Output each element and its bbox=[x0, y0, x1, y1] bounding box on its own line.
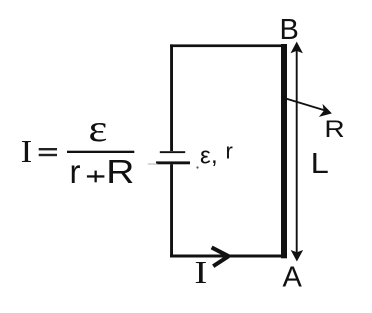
wire: left side lower segment bbox=[170, 164, 173, 257]
wire: top rail bbox=[170, 44, 284, 47]
svg-text:r: r bbox=[70, 153, 81, 190]
resistance arrow R shaft bbox=[282, 97, 327, 111]
svg-text:I: I bbox=[21, 133, 33, 169]
equation equals sign bbox=[39, 148, 57, 156]
svg-text:I: I bbox=[194, 254, 207, 290]
svg-text:R: R bbox=[106, 153, 134, 190]
rod AB (thick bar) bbox=[281, 44, 287, 258]
wire: bottom rail bbox=[170, 255, 287, 258]
wire: left side upper segment bbox=[170, 44, 173, 151]
svg-text:ε: ε bbox=[88, 108, 107, 150]
svg-text:R: R bbox=[324, 116, 344, 143]
current arrow I head on bottom rail bbox=[212, 247, 229, 266]
stray ink dot bbox=[196, 166, 198, 168]
svg-text:,: , bbox=[211, 142, 218, 169]
svg-text:r: r bbox=[226, 139, 233, 164]
length arrow L bottom head bbox=[291, 250, 303, 262]
svg-text:L: L bbox=[311, 148, 329, 180]
svg-text:B: B bbox=[280, 14, 299, 46]
faint smudge left of battery bbox=[148, 163, 158, 165]
equation fraction bar bbox=[67, 151, 134, 153]
length arrow L top head bbox=[291, 42, 303, 54]
length arrow L shaft bbox=[296, 50, 298, 253]
resistance arrow R head bbox=[319, 104, 332, 117]
svg-text:ε: ε bbox=[200, 142, 211, 169]
svg-text:A: A bbox=[283, 261, 303, 293]
battery cell bottom plate bbox=[156, 161, 190, 164]
equation denominator plus bbox=[87, 171, 105, 183]
battery cell top plate bbox=[160, 151, 185, 153]
